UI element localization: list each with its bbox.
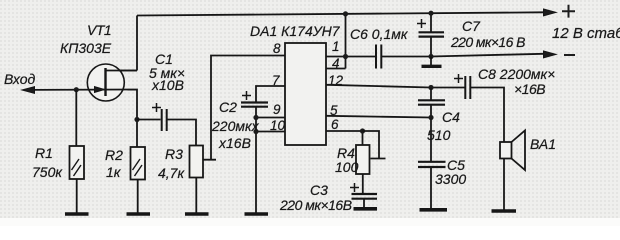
svg-text:С7: С7	[462, 18, 481, 34]
svg-text:VT1: VT1	[87, 22, 111, 38]
svg-text:С6 0,1мк: С6 0,1мк	[350, 26, 409, 42]
svg-text:220 мк×16 В: 220 мк×16 В	[450, 34, 525, 50]
svg-text:х16В: х16В	[218, 135, 251, 151]
svg-text:3300: 3300	[435, 171, 466, 187]
svg-text:12 В стаб.: 12 В стаб.	[552, 25, 620, 42]
svg-text:12: 12	[328, 73, 344, 88]
svg-text:КП303Е: КП303Е	[60, 40, 112, 56]
svg-text:220 мк×16В: 220 мк×16В	[279, 197, 352, 213]
svg-text:100: 100	[335, 159, 359, 175]
svg-text:220мкх: 220мкх	[211, 118, 260, 134]
svg-text:R3: R3	[165, 146, 183, 162]
svg-text:R2: R2	[105, 147, 123, 163]
svg-text:4: 4	[332, 56, 340, 71]
svg-text:510: 510	[427, 127, 451, 143]
svg-text:С2: С2	[219, 99, 237, 115]
svg-text:ВА1: ВА1	[530, 136, 556, 152]
svg-text:750к: 750к	[32, 164, 63, 180]
svg-text:9: 9	[273, 102, 281, 117]
svg-text:С4: С4	[442, 109, 460, 125]
svg-text:R1: R1	[35, 145, 53, 161]
svg-text:8: 8	[273, 41, 281, 56]
svg-text:5: 5	[330, 103, 338, 118]
svg-text:1к: 1к	[106, 164, 122, 180]
svg-text:С8 2200мк×: С8 2200мк×	[478, 66, 555, 82]
svg-text:10: 10	[270, 118, 286, 133]
svg-text:7: 7	[272, 73, 280, 88]
svg-text:С3: С3	[310, 182, 328, 198]
svg-text:1: 1	[332, 39, 340, 54]
svg-text:DA1 К174УН7: DA1 К174УН7	[250, 23, 341, 39]
svg-text:Вход: Вход	[4, 71, 36, 87]
svg-text:х10В: х10В	[151, 77, 184, 93]
svg-text:×16В: ×16В	[514, 81, 545, 97]
svg-text:4,7к: 4,7к	[158, 165, 185, 181]
svg-text:6: 6	[331, 117, 339, 132]
